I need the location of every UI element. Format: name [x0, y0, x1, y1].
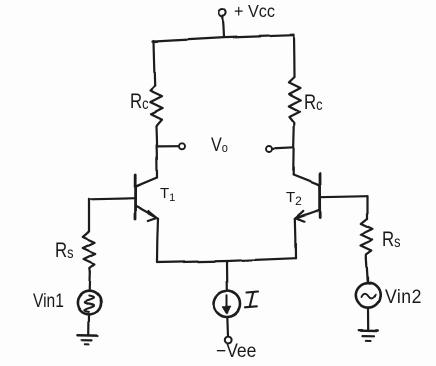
- svg-text:+ Vcc: + Vcc: [234, 1, 275, 21]
- node +Vcc terminal: [219, 9, 226, 16]
- wire Rs to Vin1: [88, 272, 91, 291]
- wire right base-down: [366, 196, 368, 219]
- ground left: [78, 335, 97, 344]
- resistor Rs right: [361, 219, 373, 259]
- T1 collector diagonal: [136, 178, 157, 187]
- wire left collector upper segment: [154, 41, 155, 86]
- wire I to -Vee: [226, 317, 229, 336]
- ground right: [358, 330, 378, 340]
- current source arrow: [223, 296, 231, 314]
- svg-text:Vin2: Vin2: [385, 285, 422, 307]
- wire T2 base: [320, 196, 367, 197]
- source Vin2: [356, 283, 380, 307]
- wire current source stem: [226, 261, 229, 291]
- svg-text:Vo: Vo: [211, 134, 228, 156]
- wire Vin1 to ground: [88, 315, 91, 336]
- wire Vcc stem: [223, 16, 224, 37]
- svg-text:Rs: Rs: [382, 228, 401, 251]
- wire emitter bus: [157, 258, 296, 262]
- wire left base-down: [88, 199, 90, 232]
- T1 emitter arrowhead: [148, 211, 157, 221]
- wire left output tap: [157, 145, 179, 147]
- label I: [245, 292, 258, 308]
- wire Vin2 to ground: [367, 308, 369, 330]
- wire right collector upper segment: [292, 35, 295, 77]
- wire T1 base: [89, 198, 135, 199]
- svg-text:Rs: Rs: [55, 239, 74, 262]
- source Vin1: [77, 291, 100, 314]
- current source I: [214, 291, 240, 317]
- node right output terminal: [266, 146, 272, 152]
- T1 base bar: [134, 175, 137, 219]
- wire Rs to Vin2: [366, 259, 368, 284]
- svg-text:Vin1: Vin1: [33, 290, 64, 312]
- resistor Rc right: [288, 77, 300, 123]
- transistor T2: [293, 174, 320, 222]
- resistor Rc left: [150, 86, 162, 126]
- wire right output tap: [272, 148, 293, 149]
- svg-text:−Vee: −Vee: [216, 339, 256, 361]
- wire left emitter vertical: [157, 218, 158, 262]
- T2 collector diagonal: [293, 175, 319, 185]
- Vin2 sine symbol: [362, 294, 376, 299]
- node -Vee terminal: [225, 337, 232, 344]
- wire left collector mid segment: [156, 126, 157, 178]
- wire top bus: [153, 35, 294, 41]
- node left output terminal: [179, 143, 185, 149]
- svg-text:T1: T1: [160, 185, 175, 204]
- T1 emitter diagonal: [136, 206, 158, 218]
- wire right collector mid segment: [293, 123, 294, 175]
- svg-text:Rc: Rc: [304, 91, 323, 114]
- svg-text:Rc: Rc: [130, 90, 149, 113]
- Vin1 sine symbol: [84, 296, 93, 312]
- T2 emitter diagonal: [295, 211, 319, 219]
- resistor Rs left: [83, 232, 95, 272]
- T2 base bar: [319, 174, 322, 218]
- svg-text:T2: T2: [286, 189, 302, 208]
- transistor T1: [135, 175, 158, 221]
- T2 emitter arrowhead: [296, 211, 305, 221]
- wire right emitter vertical: [294, 219, 297, 258]
